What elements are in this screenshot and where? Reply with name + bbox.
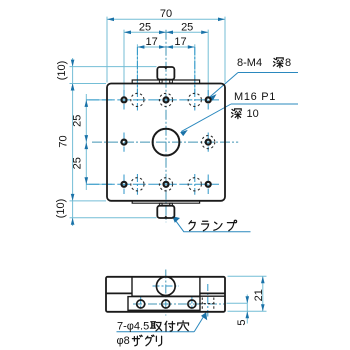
node: column crosshairs x=124 [123,90,125,194]
label: fukai10 (深10) [231,109,241,119]
node: hidden hole vertical centerline [207,284,209,317]
clamp bottom knob notch [164,216,168,218]
arrows 70 top [107,18,114,22]
kanji/katakana hand-drawn glyphs [132,58,283,346]
svg-text:17: 17 [174,36,186,48]
svg-text:8-M4: 8-M4 [237,57,262,69]
svg-text:25: 25 [72,115,84,127]
svg-text:M16 P1: M16 P1 [234,91,276,103]
holes 8-M4 rings [122,97,211,186]
arrow leader 8-M4 [209,94,216,101]
arrows left chain (10) bottom [71,218,75,225]
holes 7-phi4.5 counterbore dashed circles [131,93,215,191]
label: kanji zaguri [132,335,142,346]
svg-text:25: 25 [72,157,84,169]
node: column crosshairs x=208.2 [207,90,209,194]
svg-text:(10): (10) [55,199,67,219]
wire: top 70 dim line [107,17,225,83]
side view split lines [106,292,132,294]
wire: left inner chain 25/25 [86,94,112,190]
node: column crosshairs x=137.4 [136,47,138,195]
clamp top knob feet [159,80,162,83]
svg-text:7-φ4.5: 7-φ4.5 [117,321,149,333]
svg-text:10: 10 [247,108,259,120]
wire: leader 7-phi4.5 [194,313,206,332]
arrow leader 7-phi4.5 [201,312,207,320]
arrows 17-17 top [137,45,144,49]
side view screws [137,300,145,308]
node: side view screw vertical centerlines [141,297,192,312]
svg-text:25: 25 [181,22,193,34]
arrows 21 [261,276,265,283]
node: row centerline y=184.3 [86,183,219,185]
svg-text:21: 21 [253,289,265,301]
wire: top 17-17 dim line [137,44,194,95]
node: centerline horizontal main y=142.1 [92,141,238,143]
node: side view screws horizontal centerline [133,303,224,305]
side view mid line [132,295,225,297]
clamp bottom knob feet [159,203,162,206]
arrows 25-25 top [124,31,131,35]
wire: leader clamp [173,217,251,232]
node: column crosshairs x=194.8 [194,47,196,195]
clamp top knob notch [164,67,168,70]
arrow leader clamp [172,216,180,223]
arrows 5 (outside) [246,296,250,303]
label: kanji toritsuke-ana [150,322,161,331]
clamp top knob [157,67,174,80]
node: centerline vertical main x=166 [165,30,167,223]
side view inner verticals [131,277,133,297]
wire: leader M16 [181,104,231,132]
node: row centerline y=99.9 [86,99,219,101]
svg-text:70: 70 [58,135,70,147]
side view outer outline [106,277,225,312]
arrows left chain (10) top [71,60,75,67]
wire: left outer chain (10)/70/(10) [70,58,157,226]
svg-text:8: 8 [285,57,291,69]
svg-text:φ8: φ8 [117,335,130,347]
wire: side view 21 dim [228,276,267,311]
label: fukai8 (8-M4 深8) [273,58,283,68]
arrows left chain 70 [71,84,75,91]
node: side view knob circle horizontal centerline [153,285,180,287]
arrow leader M16 [180,130,188,136]
svg-text:17: 17 [145,36,157,48]
arrows left inner chain 25/25 [85,100,89,107]
clamp bottom knob [157,206,174,218]
clamp top bar [132,80,199,84]
plate outline top view [107,84,225,201]
side view screws box [128,297,200,311]
clamp bottom bar [132,201,199,203]
svg-text:5: 5 [236,319,248,325]
node: side view vertical centerline x=165.8 [165,270,167,316]
wire: leader 8-M4 [210,73,239,98]
label: kanji kuranpu [189,221,195,231]
svg-text:70: 70 [160,8,172,20]
hidden counterbore dashes [199,298,217,310]
hole M16 center [153,129,180,156]
wire: top 25-25 dim line [124,30,208,95]
svg-text:25: 25 [139,22,151,34]
wire: side view 5 dim [227,295,248,324]
side view knob circle [156,277,175,296]
svg-text:(10): (10) [56,61,68,81]
